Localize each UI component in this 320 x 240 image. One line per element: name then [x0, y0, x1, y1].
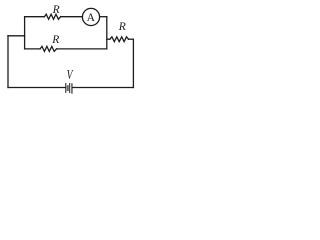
svg-text:R: R: [51, 34, 59, 46]
svg-text:A: A: [87, 11, 96, 24]
svg-text:R: R: [118, 21, 126, 33]
svg-text:R: R: [52, 4, 60, 16]
